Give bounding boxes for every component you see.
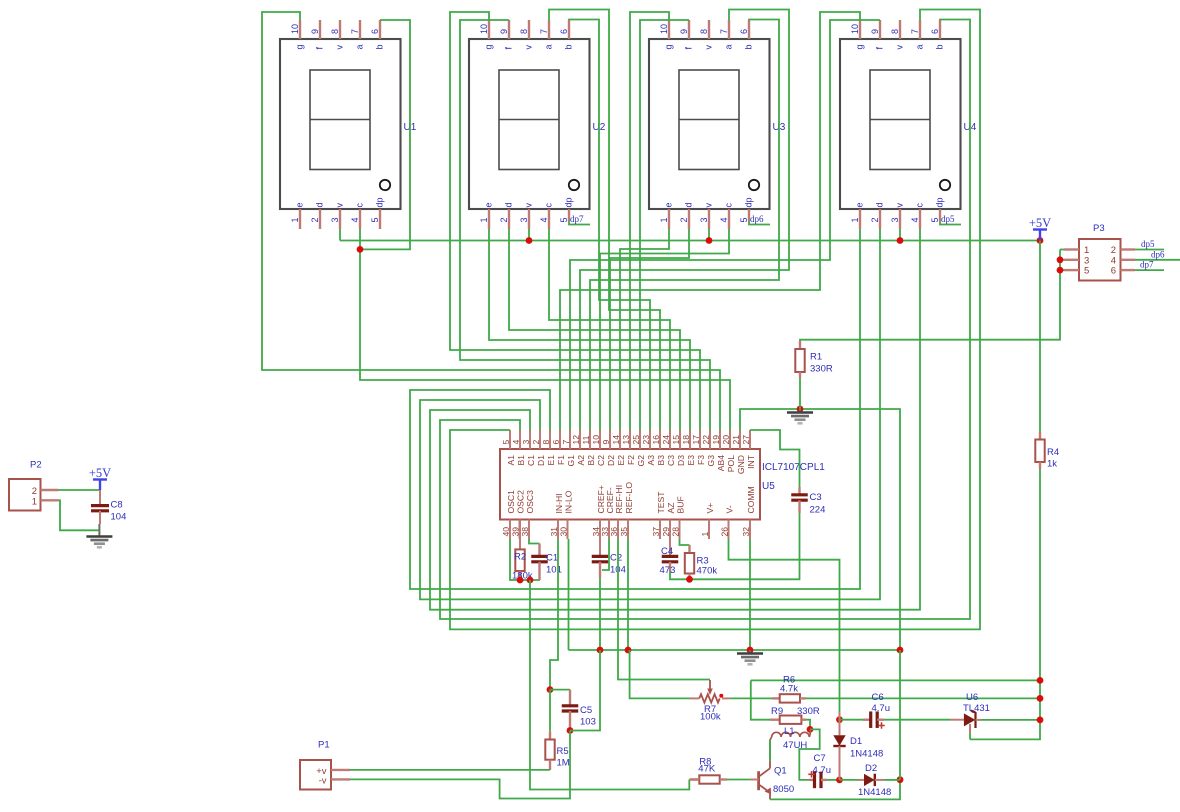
svg-text:c: c [915,203,925,208]
svg-text:2: 2 [531,440,541,445]
svg-text:7: 7 [561,440,571,445]
svg-text:C3: C3 [666,455,676,466]
svg-text:31: 31 [549,527,559,537]
svg-text:37: 37 [651,527,661,537]
svg-text:4.7u: 4.7u [813,765,832,776]
svg-text:36: 36 [609,527,619,537]
svg-text:8: 8 [519,29,529,34]
svg-text:224: 224 [810,504,826,515]
svg-text:10: 10 [659,24,669,34]
svg-text:C8: C8 [111,500,123,511]
svg-text:INT: INT [746,454,756,469]
svg-text:A1: A1 [506,455,516,466]
svg-text:1N4148: 1N4148 [850,749,883,760]
svg-text:12: 12 [571,435,581,445]
svg-text:1: 1 [659,217,669,222]
svg-text:16: 16 [651,435,661,445]
svg-text:OSC1: OSC1 [506,490,516,514]
svg-text:IN-HI: IN-HI [554,493,564,513]
svg-text:20: 20 [721,435,731,445]
svg-text:5: 5 [739,217,749,222]
svg-text:C6: C6 [872,692,884,703]
svg-text:dp6: dp6 [750,214,764,224]
svg-text:3: 3 [890,217,900,222]
svg-text:6: 6 [551,440,561,445]
svg-text:101: 101 [546,565,562,576]
svg-text:d: d [875,202,885,207]
svg-text:P2: P2 [30,460,42,471]
svg-text:a: a [544,44,554,49]
svg-text:4: 4 [719,217,729,222]
svg-text:A3: A3 [646,455,656,466]
svg-text:4: 4 [350,217,360,222]
svg-text:U5: U5 [762,481,775,492]
svg-text:18: 18 [681,435,691,445]
svg-text:L1: L1 [784,726,795,737]
svg-text:D2: D2 [606,455,616,466]
svg-text:b: b [375,44,385,49]
svg-text:D3: D3 [676,455,686,466]
svg-text:23: 23 [641,435,651,445]
svg-text:1M: 1M [557,758,570,769]
svg-text:1: 1 [700,532,710,537]
svg-text:100k: 100k [700,712,721,723]
svg-text:v: v [524,45,534,50]
svg-text:C3: C3 [810,492,822,503]
svg-text:dp: dp [375,197,385,207]
svg-text:+5V: +5V [89,466,111,480]
svg-text:E1: E1 [546,455,556,466]
svg-text:c: c [355,203,365,208]
svg-text:24: 24 [661,435,671,445]
svg-text:2: 2 [499,217,509,222]
svg-text:103: 103 [580,717,596,728]
svg-text:GND: GND [736,455,746,474]
svg-text:3: 3 [521,440,531,445]
svg-text:dp7: dp7 [1140,260,1154,270]
svg-text:v: v [704,203,714,208]
svg-text:F3: F3 [696,455,706,465]
svg-text:9: 9 [499,29,509,34]
svg-text:D1: D1 [850,736,862,747]
svg-text:a: a [915,44,925,49]
svg-text:U6: U6 [966,692,978,703]
svg-text:D1: D1 [536,455,546,466]
svg-text:47K: 47K [698,764,716,775]
svg-text:v: v [524,203,534,208]
svg-text:8: 8 [541,440,551,445]
svg-text:11: 11 [581,435,591,444]
svg-text:1: 1 [290,217,300,222]
svg-text:V+: V+ [705,503,715,514]
svg-text:2: 2 [310,217,320,222]
svg-text:6: 6 [370,29,380,34]
svg-text:15: 15 [671,435,681,445]
svg-text:V-: V- [725,505,735,513]
svg-text:7: 7 [539,29,549,34]
svg-text:9: 9 [310,29,320,34]
svg-text:14: 14 [611,435,621,445]
svg-text:4.7k: 4.7k [780,684,798,695]
svg-text:1: 1 [850,217,860,222]
svg-text:17: 17 [691,435,701,445]
svg-text:10: 10 [479,24,489,34]
svg-text:104: 104 [111,512,127,523]
svg-text:C2: C2 [610,553,622,564]
svg-text:330R: 330R [797,706,820,717]
svg-text:G3: G3 [706,455,716,467]
svg-text:TEST: TEST [656,491,666,514]
svg-text:E2: E2 [616,455,626,466]
svg-text:TL431: TL431 [963,703,990,714]
svg-text:e: e [664,202,674,207]
svg-text:+5V: +5V [1029,216,1051,230]
svg-text:4: 4 [511,440,521,445]
svg-text:3: 3 [519,217,529,222]
svg-text:30: 30 [559,527,569,537]
svg-text:g: g [295,44,305,49]
svg-text:2: 2 [870,217,880,222]
svg-text:473: 473 [660,565,676,576]
svg-text:dp: dp [564,197,574,207]
svg-text:R4: R4 [1047,447,1059,458]
svg-text:6: 6 [930,29,940,34]
svg-text:C7: C7 [814,753,826,764]
svg-text:6: 6 [559,29,569,34]
svg-text:E3: E3 [686,455,696,466]
svg-text:C1: C1 [546,553,558,564]
svg-text:e: e [295,202,305,207]
svg-text:40: 40 [501,527,511,537]
svg-text:R2: R2 [514,552,526,563]
svg-text:5: 5 [930,217,940,222]
svg-text:19: 19 [711,435,721,445]
svg-text:b: b [744,44,754,49]
svg-text:29: 29 [661,527,671,537]
svg-text:330R: 330R [810,364,833,375]
svg-text:35: 35 [619,527,629,537]
svg-text:C4: C4 [661,546,673,557]
svg-text:v: v [335,45,345,50]
svg-text:10: 10 [850,24,860,34]
svg-text:8050: 8050 [773,784,794,795]
svg-text:10: 10 [290,24,300,34]
svg-text:a: a [724,44,734,49]
svg-text:8: 8 [890,29,900,34]
svg-text:-v: -v [319,776,327,787]
svg-text:5: 5 [501,440,511,445]
svg-text:B1: B1 [516,455,526,466]
svg-text:Q1: Q1 [774,766,787,777]
svg-text:IN-LO: IN-LO [564,490,574,513]
svg-text:a: a [355,44,365,49]
svg-text:d: d [504,202,514,207]
svg-text:v: v [704,45,714,50]
svg-text:d: d [315,202,325,207]
svg-text:C2: C2 [596,455,606,466]
svg-text:g: g [855,44,865,49]
svg-text:F1: F1 [556,455,566,465]
svg-text:B2: B2 [586,455,596,466]
svg-text:b: b [564,44,574,49]
svg-text:5: 5 [1084,266,1089,277]
svg-text:1N4148: 1N4148 [858,787,891,798]
svg-text:5: 5 [370,217,380,222]
svg-text:e: e [484,202,494,207]
svg-text:c: c [544,203,554,208]
svg-text:OSC3: OSC3 [525,490,535,514]
svg-text:R1: R1 [810,352,822,363]
svg-text:BUF: BUF [676,496,686,513]
svg-text:4: 4 [910,217,920,222]
svg-text:g: g [484,44,494,49]
svg-text:REF-HI: REF-HI [614,485,624,514]
svg-text:B3: B3 [656,455,666,466]
svg-text:e: e [855,202,865,207]
svg-text:OSC2: OSC2 [516,490,526,514]
svg-text:dp: dp [744,197,754,207]
svg-text:P3: P3 [1093,223,1105,234]
svg-text:22: 22 [701,435,711,445]
svg-text:7: 7 [719,29,729,34]
svg-text:38: 38 [520,527,530,537]
svg-text:v: v [895,45,905,50]
svg-text:1k: 1k [1047,459,1057,470]
svg-text:470k: 470k [697,566,718,577]
svg-text:dp5: dp5 [941,214,955,224]
svg-text:9: 9 [601,440,611,445]
svg-text:dp5: dp5 [1141,239,1155,249]
svg-text:1: 1 [479,217,489,222]
svg-text:10: 10 [591,435,601,445]
svg-text:C1: C1 [526,455,536,466]
svg-text:dp6: dp6 [1151,249,1165,259]
svg-text:C5: C5 [580,705,592,716]
svg-text:3: 3 [330,217,340,222]
svg-text:COMM: COMM [746,486,756,513]
svg-text:26: 26 [720,527,730,537]
svg-text:P1: P1 [318,740,330,751]
svg-text:A2: A2 [576,455,586,466]
svg-text:8: 8 [699,29,709,34]
svg-text:4.7u: 4.7u [872,703,891,714]
svg-text:28: 28 [671,527,681,537]
svg-text:2: 2 [679,217,689,222]
svg-text:AZ: AZ [666,503,676,514]
svg-text:d: d [684,202,694,207]
svg-text:b: b [935,44,945,49]
svg-text:27: 27 [741,435,751,445]
svg-text:dp7: dp7 [570,214,584,224]
svg-text:4: 4 [539,217,549,222]
svg-text:6: 6 [1111,266,1116,277]
svg-text:8: 8 [330,29,340,34]
svg-text:D2: D2 [865,763,877,774]
svg-text:13: 13 [621,435,631,445]
svg-text:AB4: AB4 [716,455,726,471]
svg-text:v: v [335,203,345,208]
svg-text:G1: G1 [566,455,576,467]
svg-text:F2: F2 [626,455,636,465]
svg-text:5: 5 [559,217,569,222]
svg-text:R9: R9 [771,706,783,717]
svg-text:9: 9 [679,29,689,34]
svg-text:g: g [664,44,674,49]
svg-text:25: 25 [631,435,641,445]
svg-text:3: 3 [699,217,709,222]
svg-text:POL: POL [726,455,736,472]
svg-text:1: 1 [32,496,37,507]
svg-text:c: c [724,203,734,208]
svg-text:9: 9 [870,29,880,34]
svg-text:7: 7 [350,29,360,34]
svg-text:21: 21 [731,435,741,445]
svg-text:v: v [895,203,905,208]
svg-text:dp: dp [935,197,945,207]
svg-text:R5: R5 [557,746,569,757]
svg-text:REF-LO: REF-LO [624,482,634,514]
svg-text:G2: G2 [636,455,646,467]
svg-text:ICL7107CPL1: ICL7107CPL1 [762,462,825,473]
svg-text:32: 32 [741,527,751,537]
svg-text:6: 6 [739,29,749,34]
svg-text:7: 7 [910,29,920,34]
